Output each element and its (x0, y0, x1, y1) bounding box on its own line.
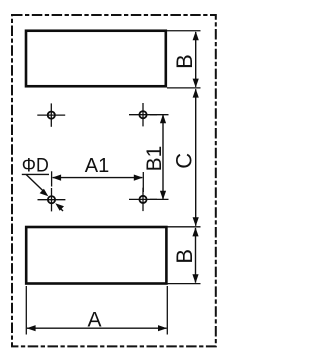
extension line top-right of top plate (167, 30, 201, 32)
svg-text:ΦD: ΦD (22, 155, 49, 176)
second leader arrow at hole (55, 203, 64, 211)
hole top-right (129, 103, 157, 126)
svg-text:A: A (87, 308, 101, 331)
label B top (172, 54, 197, 69)
extension line top-right of bottom plate (167, 226, 201, 228)
dimension line B1 (160, 114, 166, 200)
leader line to hole (26, 174, 48, 196)
extension line from hole top-right (150, 114, 169, 116)
top plate rectangle (26, 31, 166, 87)
svg-text:B: B (172, 249, 197, 264)
dimension line A1 (52, 175, 143, 181)
extension tick left of A1 (51, 171, 53, 186)
svg-text:B: B (172, 54, 197, 69)
dimension line B top (193, 31, 199, 87)
svg-text:B1: B1 (143, 146, 166, 172)
extension line bottom-right of bottom plate (167, 283, 201, 285)
hole bottom-left (38, 188, 66, 211)
label B bottom (172, 249, 197, 264)
label B1 (143, 146, 166, 172)
label A1 (85, 155, 109, 177)
hole bottom-right (129, 188, 157, 211)
extension tick right of A1 (142, 172, 144, 192)
leader shelf under PhiD (22, 173, 49, 175)
dimension line C (193, 89, 199, 227)
svg-text:C: C (171, 153, 196, 169)
dimension line B bottom (192, 227, 198, 283)
label C (171, 153, 196, 169)
extension line left of A (25, 286, 27, 335)
extension line from hole bottom-right (150, 198, 169, 200)
svg-text:A1: A1 (85, 155, 109, 177)
chain-line border frame (12, 15, 216, 346)
hole top-left (37, 103, 65, 126)
label A (87, 308, 101, 331)
label PhiD (22, 155, 49, 176)
dimension line A (27, 325, 167, 331)
extension line right of A (166, 286, 168, 335)
bottom plate rectangle (26, 227, 166, 284)
extension line bottom-right of top plate (167, 87, 201, 89)
